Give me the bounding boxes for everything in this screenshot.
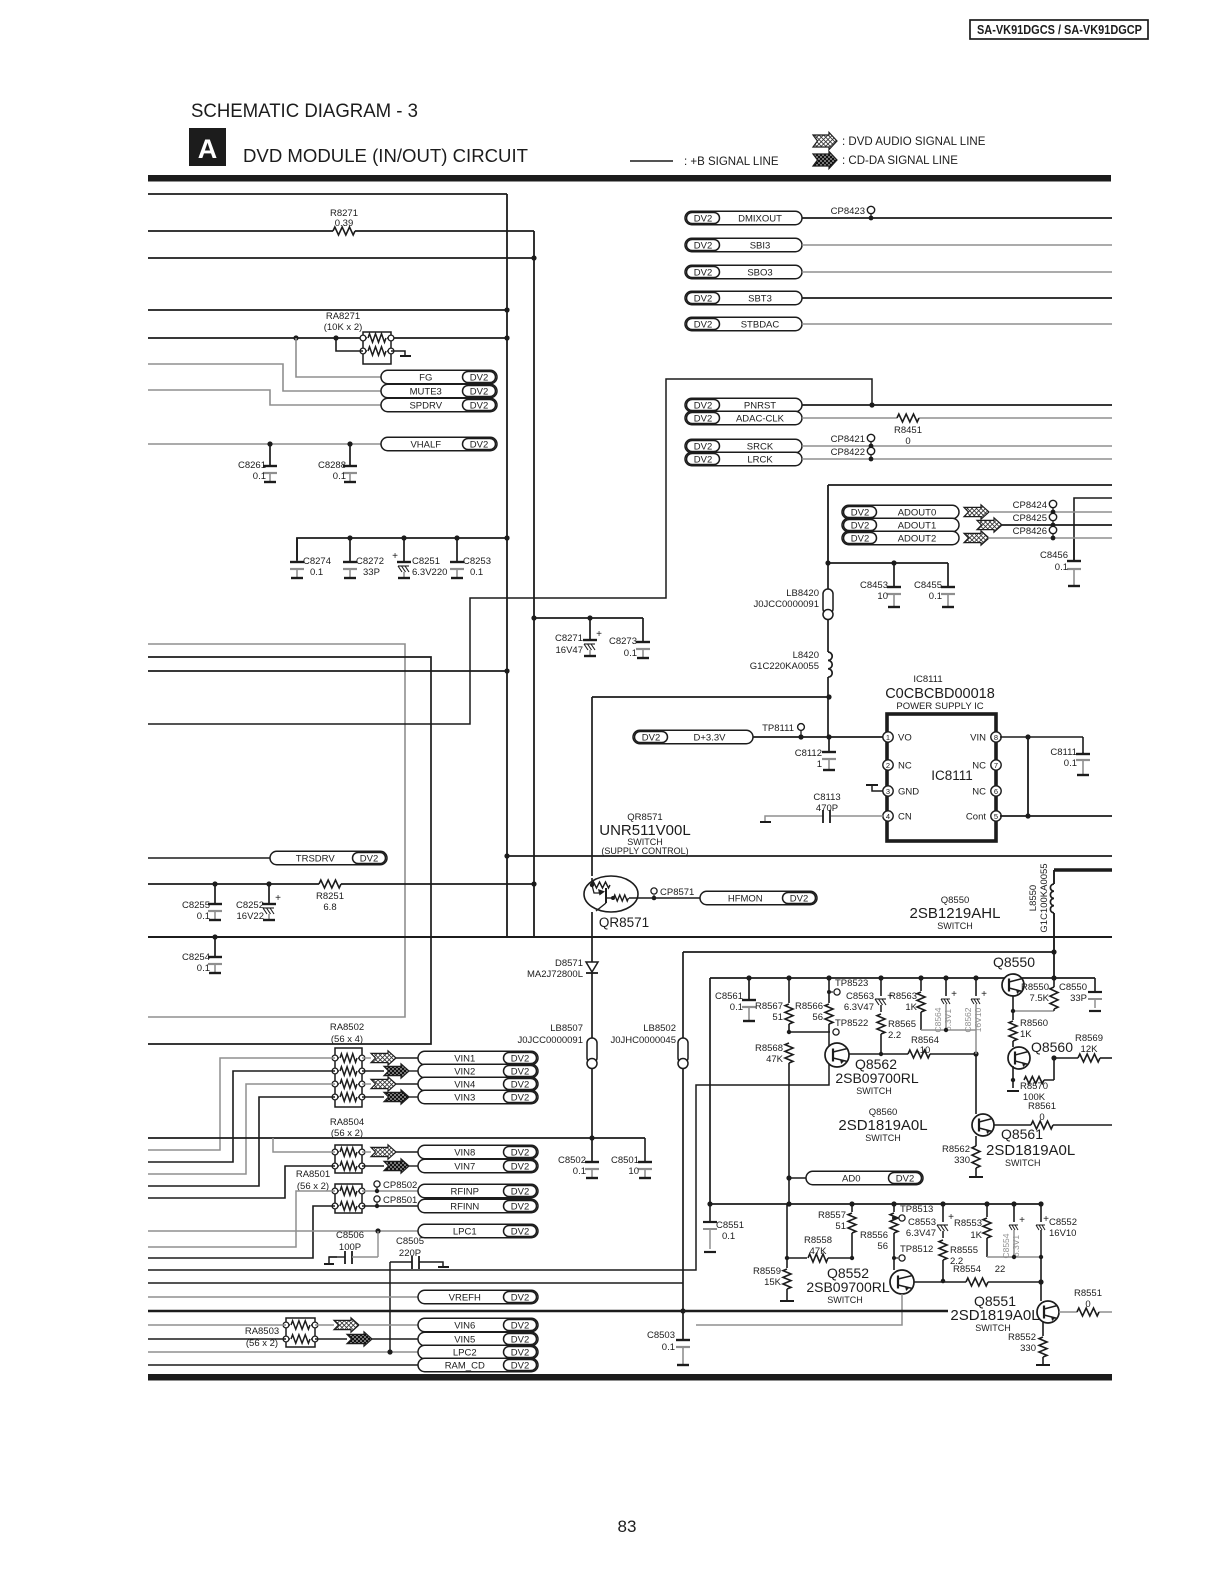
svg-text:CP8423: CP8423 [831,206,865,217]
wire DMIXOUT [802,217,1112,219]
wire to MUTE3 [148,364,381,391]
resistor R8551 0 [1059,1311,1077,1313]
wire Q8562 base route to left edge [148,1032,829,1270]
svg-text:0.39: 0.39 [335,218,354,229]
wire gray Q8550 emitter to R8550 bottom [1013,1010,1054,1012]
legend: +B signal line [630,160,673,162]
svg-text:0.1: 0.1 [1064,758,1077,769]
svg-text:0.1: 0.1 [333,471,346,482]
svg-text:J0JHC0000045: J0JHC0000045 [611,1035,677,1046]
svg-text:STBDAC: STBDAC [741,319,780,330]
wire LPC1 [148,1230,418,1232]
capacitor C8255 [212,881,217,886]
svg-text:C8111: C8111 [1050,747,1077,758]
svg-text:SWITCH: SWITCH [1005,1158,1041,1168]
wire y671 [148,670,507,672]
svg-text:TP8512: TP8512 [900,1244,933,1255]
test point CP8423 [869,216,874,221]
wire TRSDRV y858 [148,857,270,859]
wire vertical x534 [533,231,535,937]
transistor Q8551 [1037,1301,1059,1323]
capacitor C8253 [456,556,458,562]
svg-text:SWITCH: SWITCH [856,1086,892,1096]
wire pin5 Cont [1000,815,1112,817]
wire y258 [148,257,534,259]
svg-text:C8564: C8564 [933,1007,943,1032]
svg-text:C8272: C8272 [356,556,384,567]
svg-text:83: 83 [618,1517,637,1536]
svg-text:L8550: L8550 [1028,885,1039,911]
svg-text:R8551: R8551 [1074,1288,1102,1299]
wire bus y978 [710,977,1095,979]
connector VIN8 DV2 [396,1151,418,1153]
resistor R8557 51 [849,1201,854,1206]
svg-text:SWITCH: SWITCH [865,1133,901,1143]
svg-text:51: 51 [835,1221,846,1232]
svg-text:PNRST: PNRST [744,400,776,411]
svg-text:6: 6 [994,787,998,796]
connector LPC1 DV2 [418,1224,538,1238]
svg-text:47K: 47K [810,1246,828,1257]
test point CP8571 [653,895,655,898]
capacitor C8251 electrolytic [403,556,405,562]
connector MUTE3 DV2 [381,384,497,398]
transistor Q8562 [825,1043,849,1067]
capacitor C8503 [682,1339,684,1341]
svg-text:CP8425: CP8425 [1013,513,1047,524]
connector VIN4 DV2 [396,1083,418,1085]
connector RAM_CD DV2 [418,1358,538,1372]
svg-text:VIN7: VIN7 [454,1161,475,1172]
svg-text:: +B SIGNAL LINE: : +B SIGNAL LINE [684,156,779,168]
digital transistor QR8571 [584,876,638,912]
svg-text:RA8503: RA8503 [245,1326,279,1337]
svg-text:DV2: DV2 [694,240,712,251]
svg-text:NC: NC [972,787,986,798]
connector VIN2 DV2 [409,1070,418,1072]
svg-text:QR8571: QR8571 [599,915,649,930]
resistor array RA8503 [286,1318,315,1347]
svg-text:DV2: DV2 [694,319,712,330]
connector DV2 PNRST [685,398,802,412]
transistor Q8561 [972,1114,994,1136]
svg-text:0: 0 [1039,1112,1044,1123]
capacitor C8502 [591,1138,593,1162]
svg-text:R8570: R8570 [1020,1081,1048,1092]
svg-text:DV2: DV2 [851,533,869,544]
svg-text:33P: 33P [1070,993,1087,1004]
svg-text:16V22: 16V22 [237,911,264,922]
model number box SA-VK91DGCS / SA-VK91DGCP [970,20,1148,39]
connector DV2 D+3.3V [633,730,753,744]
svg-text:R8550: R8550 [1021,982,1049,993]
capacitor bus y538 [297,538,507,560]
wire RFINN [362,1205,418,1207]
resistor R8552 330 [1042,1322,1044,1336]
svg-text:1: 1 [817,759,822,770]
svg-text:C8255: C8255 [182,900,210,911]
capacitor C8252 electrolytic [266,881,271,886]
svg-text:CP8502: CP8502 [383,1180,417,1191]
svg-text:15K: 15K [764,1277,782,1288]
wire LPC2 [148,1351,418,1353]
svg-text:VIN3: VIN3 [454,1092,475,1103]
connector RFINP DV2 [418,1184,538,1198]
svg-text:7.5K: 7.5K [1029,993,1049,1004]
resistor R8568 47K [785,1043,793,1063]
svg-text:RFINN: RFINN [450,1201,479,1212]
test point CP8501 [376,1202,378,1206]
resistor array RA8504 [335,1145,362,1173]
signal arrow VIN2 [362,1070,384,1072]
svg-text:C8553: C8553 [908,1217,936,1228]
connector VIN1 DV2 [396,1057,418,1059]
connector DV2 ADOUT0 [842,505,959,519]
svg-text:DV2: DV2 [896,1173,914,1184]
wires into RA8501 [148,1191,335,1247]
svg-text:2SB09700RL: 2SB09700RL [835,1070,919,1086]
svg-text:Cont: Cont [966,812,986,823]
svg-text:C8254: C8254 [182,952,210,963]
svg-text:DV2: DV2 [470,400,488,411]
svg-text:CP8501: CP8501 [383,1195,417,1206]
capacitor C8563 electrolytic 6.3V47 [878,975,883,980]
svg-text:DVD MODULE (IN/OUT) CIRCUIT: DVD MODULE (IN/OUT) CIRCUIT [243,145,528,166]
wire SBI3 [802,244,1112,246]
svg-text:LB8502: LB8502 [643,1023,676,1034]
svg-text:DV2: DV2 [694,400,712,411]
transistor Q8560 [1008,1047,1030,1069]
transistor Q8552 [890,1270,914,1294]
connector AD0 DV2 [789,1177,806,1179]
svg-text:CP8422: CP8422 [831,447,865,458]
svg-text:1: 1 [886,733,890,742]
svg-text:J0JCC0000091: J0JCC0000091 [518,1035,584,1046]
svg-text:2SD1819A0L: 2SD1819A0L [838,1117,927,1134]
wire Q8562 collector to R8564 [849,1053,908,1055]
svg-text:DV2: DV2 [694,293,712,304]
svg-text:C8505: C8505 [396,1236,424,1247]
wire ADOUT box top y485 [828,484,1112,486]
svg-text:POWER SUPPLY IC: POWER SUPPLY IC [896,701,983,712]
svg-text:3: 3 [886,787,890,796]
capacitor C8288 [347,441,352,446]
svg-text:DV2: DV2 [470,386,488,397]
svg-text:SCHEMATIC DIAGRAM - 3: SCHEMATIC DIAGRAM - 3 [191,101,418,122]
signal arrow VIN3 [362,1096,384,1098]
resistor R8550 7.5K [1053,978,1055,987]
connector RFINN DV2 [418,1199,538,1213]
svg-text:ADAC-CLK: ADAC-CLK [736,413,785,424]
svg-text:330: 330 [954,1155,970,1166]
svg-text:C0CBCBD00018: C0CBCBD00018 [885,686,995,702]
signal arrow VIN7 [362,1165,384,1167]
svg-text:ADOUT0: ADOUT0 [898,507,937,518]
svg-text:0.1: 0.1 [730,1002,743,1013]
wire SBT3 [802,297,1112,299]
svg-text:R8559: R8559 [753,1266,781,1277]
svg-text:DV2: DV2 [694,267,712,278]
resistor array RA8501 [335,1184,362,1213]
svg-text:0.1: 0.1 [624,648,637,659]
connector SPDRV DV2 [381,398,497,412]
wire x683 down to LB8502 [682,952,684,1038]
svg-text:C8253: C8253 [463,556,491,567]
capacitor C8113 470P in series on CN [831,815,883,817]
svg-text:RA8502: RA8502 [330,1022,364,1033]
wire y618 [534,617,643,619]
svg-text:VIN4: VIN4 [454,1079,475,1090]
capacitor C8271 electrolytic 16V47 [589,618,591,640]
svg-text:C8503: C8503 [647,1330,675,1341]
wire y724 route box [148,379,872,724]
test point TP8513 [892,1216,896,1220]
ground for RA8271 [391,351,405,356]
svg-text:VIN2: VIN2 [454,1066,475,1077]
svg-text:CP8426: CP8426 [1013,526,1047,537]
svg-text:2SD1819A0L: 2SD1819A0L [950,1307,1039,1324]
signal arrow VIN6 [315,1324,334,1326]
resistor R8558 47K [787,1257,807,1259]
wire gray y1030 [921,1029,976,1031]
svg-text:R8451: R8451 [894,425,922,436]
svg-text:DV2: DV2 [511,1147,529,1158]
svg-text:SWITCH: SWITCH [975,1323,1011,1333]
wire x1054 base link [1053,1057,1055,1080]
capacitor C8112 [826,734,831,739]
wire QR8571 emitter down x592 [591,697,593,876]
svg-text:C8274: C8274 [303,556,331,567]
resistor R8271 [148,230,333,232]
signal arrow VIN4 [362,1083,371,1085]
svg-text:DV2: DV2 [511,1186,529,1197]
resistor R8565 2.2 [877,1014,885,1034]
thick wire y870 [1054,868,1112,872]
section marker A [189,128,226,166]
svg-text:C8506: C8506 [336,1230,364,1241]
wire Q8552 emitter return route [696,1294,902,1325]
svg-text:470P: 470P [816,803,838,814]
svg-text:C8252: C8252 [236,900,264,911]
svg-text:+: + [596,629,602,640]
wire y952 [683,951,1054,953]
test point CP8425 [1051,523,1056,528]
IC8111 power supply IC body [887,714,996,841]
svg-text:C8502: C8502 [558,1155,586,1166]
svg-text:LPC1: LPC1 [453,1226,477,1237]
svg-text:R8566: R8566 [795,1001,823,1012]
svg-text:C8455: C8455 [914,580,942,591]
svg-text:G1C100KA0055: G1C100KA0055 [1039,863,1050,932]
svg-text:IC8111: IC8111 [913,674,942,685]
svg-text:0.1: 0.1 [722,1231,735,1242]
IC8111 pin 8 VIN [991,732,1001,742]
svg-text:2SD1819A0L: 2SD1819A0L [986,1142,1075,1159]
capacitor C8550 33P [1094,978,1096,992]
wire ADOUT box left x828 [827,485,829,563]
transistor Q8550 [1053,952,1055,978]
wire Q8562 base to Q8561 [975,1054,977,1114]
test point CP8426 [1051,536,1056,541]
svg-text:DV2: DV2 [642,732,660,743]
svg-text:10: 10 [628,1166,639,1177]
connector DV2 SBT3 [685,291,802,305]
svg-text:: DVD AUDIO SIGNAL LINE: : DVD AUDIO SIGNAL LINE [842,136,986,148]
legend: DVD audio signal line arrow [813,132,837,149]
inductor L8420 G1C220KA0055 [827,620,829,652]
svg-text:D8571: D8571 [555,958,583,969]
svg-text:16V47: 16V47 [556,645,583,656]
svg-text:R8251: R8251 [316,891,344,902]
resistor R8561 0 [994,1124,1031,1126]
svg-text:0.1: 0.1 [197,911,210,922]
test point TP8522 [789,1031,830,1033]
svg-text:22: 22 [995,1264,1006,1275]
wire gray y1257 [987,1256,1041,1258]
IC8111 pin 2 NC [883,760,893,770]
svg-text:5: 5 [994,812,998,821]
svg-text:2: 2 [886,761,890,770]
wire y657 step to x431 [148,657,431,1044]
svg-text:C8273: C8273 [609,636,637,647]
capacitor C8273 [642,618,644,640]
svg-text:RAM_CD: RAM_CD [445,1360,485,1371]
svg-text:GND: GND [898,787,919,798]
svg-text:0.1: 0.1 [929,591,942,602]
IC8111 pin 7 NC [991,760,1001,770]
svg-text:R8569: R8569 [1075,1033,1103,1044]
svg-text:C8563: C8563 [846,991,874,1002]
svg-text:SA-VK91DGCS / SA-VK91DGCP: SA-VK91DGCS / SA-VK91DGCP [977,23,1142,37]
connector VIN3 DV2 [409,1096,418,1098]
wire y1311 heavy [148,1310,948,1312]
signal arrow VIN8 [362,1151,371,1153]
resistor R8563 1K [918,975,923,980]
wire to SPDRV [148,390,381,405]
wire VREFH [148,1296,418,1298]
svg-text:RA8504: RA8504 [330,1117,364,1128]
capacitor C8455 [947,563,949,585]
svg-text:VIN8: VIN8 [454,1147,475,1158]
resistor R8569 12K [1054,1057,1078,1059]
wire y498 C8456 branch [1074,498,1112,561]
capacitor C8111 [1082,737,1084,752]
svg-text:SBT3: SBT3 [748,293,772,304]
diode D8571 MA2J72800L [586,962,598,972]
svg-text:6.3V47: 6.3V47 [844,1002,874,1013]
wire to FG [296,338,381,377]
capacitor C8274 [296,556,298,562]
svg-text:2.2: 2.2 [888,1030,901,1041]
svg-text:8: 8 [994,733,998,742]
IC8111 pin 1 VO [883,732,893,742]
svg-text:DV2: DV2 [511,1201,529,1212]
connector DV2 ADOUT1 [842,518,959,532]
svg-text:CP8424: CP8424 [1013,500,1047,511]
svg-text:D+3.3V: D+3.3V [694,732,727,743]
svg-text:+: + [1019,1215,1025,1226]
svg-text:(SUPPLY CONTROL): (SUPPLY CONTROL) [601,846,688,856]
svg-text:C8113: C8113 [813,792,840,803]
svg-text:ADOUT2: ADOUT2 [898,533,937,544]
svg-text:R8558: R8558 [804,1235,832,1246]
signal arrow ADOUT2 [964,531,989,545]
IC8111 pin 4 CN [883,811,893,821]
capacitor C8272 [349,556,351,562]
svg-text:FG: FG [419,372,432,383]
svg-text:HFMON: HFMON [728,893,763,904]
svg-text:C8552: C8552 [1049,1217,1077,1228]
IC8111 pin 3 GND [883,786,893,796]
svg-text:Q8550: Q8550 [993,954,1035,970]
svg-text:+: + [951,989,957,1000]
svg-text:C8561: C8561 [715,991,743,1002]
svg-text:100P: 100P [339,1242,361,1253]
svg-text:DV2: DV2 [511,1066,529,1077]
capacitor C8456 [1073,539,1075,561]
svg-text:33P: 33P [363,567,380,578]
svg-text:R8557: R8557 [818,1210,846,1221]
svg-text:DMIXOUT: DMIXOUT [738,213,782,224]
svg-text:DV2: DV2 [511,1226,529,1237]
svg-text:2SB1219AHL: 2SB1219AHL [910,905,1001,922]
resistor R8559 15K [785,1256,789,1260]
IC8111 pin 6 NC [991,786,1001,796]
IC8111 pin 5 Cont [991,811,1001,821]
svg-text:DV2: DV2 [511,1360,529,1371]
svg-text:C8551: C8551 [716,1220,744,1231]
capacitor C8561 [746,975,751,980]
svg-text:SWITCH: SWITCH [827,1295,863,1305]
wire x1028 pin8 to pin5 [1027,737,1029,816]
svg-text:DV2: DV2 [511,1334,529,1345]
svg-text:TP8522: TP8522 [835,1018,868,1029]
svg-text:DV2: DV2 [511,1053,529,1064]
wire RFINP [362,1190,418,1192]
resistor R8556 56 [891,1201,896,1206]
svg-text:TP8513: TP8513 [900,1204,933,1215]
svg-text:TP8523: TP8523 [835,978,868,989]
svg-text:DV2: DV2 [470,439,488,450]
svg-text:J0JCC0000091: J0JCC0000091 [754,599,820,610]
signal arrow ADOUT1 [977,518,1002,532]
legend: CD-DA signal line arrow [813,151,837,168]
svg-text:R8561: R8561 [1028,1101,1056,1112]
wire QR8571 collector out [629,897,700,899]
svg-text:C8453: C8453 [860,580,888,591]
svg-text:VO: VO [898,733,912,744]
svg-text:0.1: 0.1 [310,567,323,578]
svg-text:R8556: R8556 [860,1230,888,1241]
inductor L8550 G1C100KA0055 [1053,870,1055,884]
capacitor C8551 [709,1204,711,1222]
svg-text:C8288: C8288 [318,460,346,471]
svg-text:DV2: DV2 [694,441,712,452]
svg-text:CP8421: CP8421 [831,434,865,445]
svg-text:1K: 1K [970,1230,982,1241]
connector DV2 ADAC-CLK [685,411,802,425]
svg-text:DV2: DV2 [851,507,869,518]
svg-text:0: 0 [1085,1299,1090,1310]
connector DV2 SBO3 [685,265,802,279]
wire C8505 to LPC2 [389,1262,391,1352]
wire y563 cap bus [828,562,948,564]
svg-text:C8554: C8554 [1001,1233,1011,1258]
svg-text:R8555: R8555 [950,1245,978,1256]
svg-text:DV2: DV2 [694,213,712,224]
wire x789 down to AD0 and bus [788,1063,790,1204]
svg-text:DV2: DV2 [511,1292,529,1303]
